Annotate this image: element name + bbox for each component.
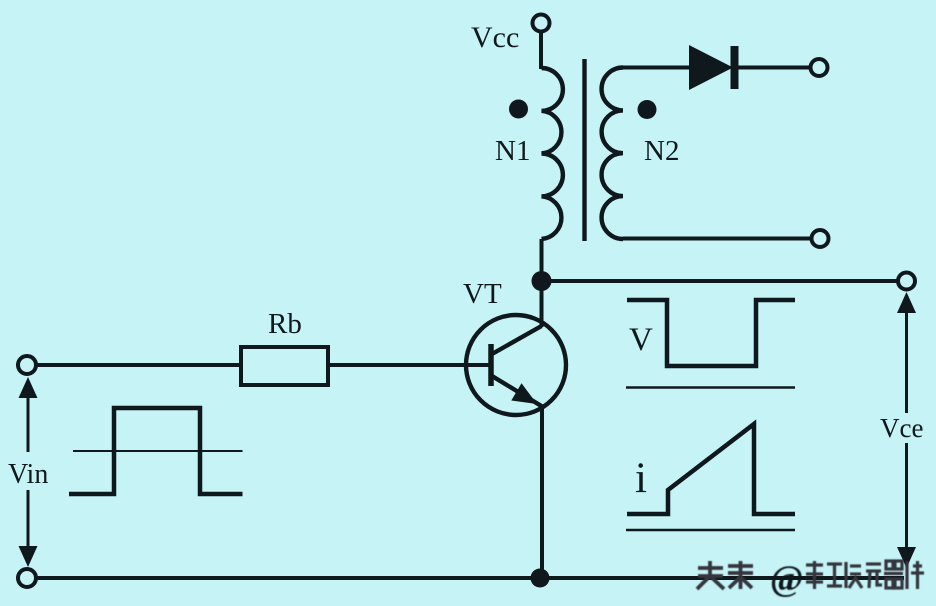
svg-text:Vce: Vce <box>880 413 923 443</box>
svg-text:N1: N1 <box>495 135 530 167</box>
wire collector node to right terminal <box>542 279 899 283</box>
glyph 工 <box>827 564 842 586</box>
wire left terminal to resistor <box>36 363 241 367</box>
phase dot N1 <box>509 100 528 119</box>
watermark 头条@李工谈元器件 <box>697 558 924 598</box>
transistor VT collector lead <box>492 326 542 354</box>
transistor VT base bar <box>488 344 494 386</box>
transistor VT emitter arrowhead <box>511 383 537 404</box>
Vin arrow head up <box>19 377 38 398</box>
junction dot emitter node <box>531 569 550 588</box>
terminal input top <box>18 356 36 374</box>
wire base <box>328 363 489 367</box>
Vin arrow shaft lower <box>27 490 30 549</box>
waveform i axis <box>626 529 795 532</box>
terminal secondary top <box>811 59 828 76</box>
resistor Rb <box>241 347 328 385</box>
svg-text:V: V <box>629 322 653 358</box>
wire emitter <box>540 406 544 578</box>
wire bottom rail <box>36 576 904 580</box>
transistor VT emitter lead <box>492 376 543 407</box>
wire diode to terminal <box>738 66 810 70</box>
Vce dimension arrow <box>897 292 916 568</box>
glyph 头 <box>697 561 724 589</box>
transistor VT body circle <box>466 315 566 415</box>
Vce arrow shaft upper <box>905 311 908 413</box>
glyph 器 <box>884 561 903 588</box>
Vin dimension arrow <box>19 377 38 567</box>
transformer secondary winding N2 <box>602 68 623 240</box>
terminal top Vcc <box>533 15 550 32</box>
glyph 李 <box>806 561 823 589</box>
wire secondary bottom <box>623 237 811 241</box>
svg-text:Rb: Rb <box>268 308 302 340</box>
svg-text:Vcc: Vcc <box>471 21 519 54</box>
svg-text:N2: N2 <box>644 135 679 167</box>
svg-text:Vin: Vin <box>8 459 48 490</box>
diode D1 <box>689 45 733 90</box>
glyph 元 <box>866 564 882 588</box>
svg-text:@: @ <box>770 558 804 598</box>
glyph 件 <box>907 561 924 589</box>
junction dot collector node <box>532 271 552 291</box>
waveform i ramp current <box>627 424 795 514</box>
wire primary bottom to junction <box>540 239 544 283</box>
glyph 条 <box>728 561 753 589</box>
transformer primary winding N1 <box>542 68 563 239</box>
waveform V collector voltage <box>627 300 795 366</box>
Vin arrow shaft upper <box>27 396 30 452</box>
Vce arrow shaft lower <box>905 443 908 548</box>
Vin arrow head down <box>19 546 38 567</box>
phase dot N2 <box>638 100 657 119</box>
terminal input bottom <box>18 569 36 587</box>
transistor VT <box>466 315 566 415</box>
waveform Vin square pulse <box>69 408 243 494</box>
Vce arrow head up <box>897 292 916 313</box>
waveform V axis <box>626 386 795 389</box>
svg-text:i: i <box>635 455 647 502</box>
Vce arrow head down <box>897 547 916 568</box>
wire collector <box>540 281 544 327</box>
wire top terminal to primary <box>539 32 543 69</box>
transformer core <box>582 59 586 241</box>
terminal secondary bottom <box>812 230 829 247</box>
waveform Vin axis <box>73 450 243 452</box>
wire secondary top to diode <box>623 66 690 70</box>
svg-text:VT: VT <box>463 278 502 310</box>
terminal right Vce top <box>898 273 915 290</box>
glyph 谈 <box>846 562 862 588</box>
